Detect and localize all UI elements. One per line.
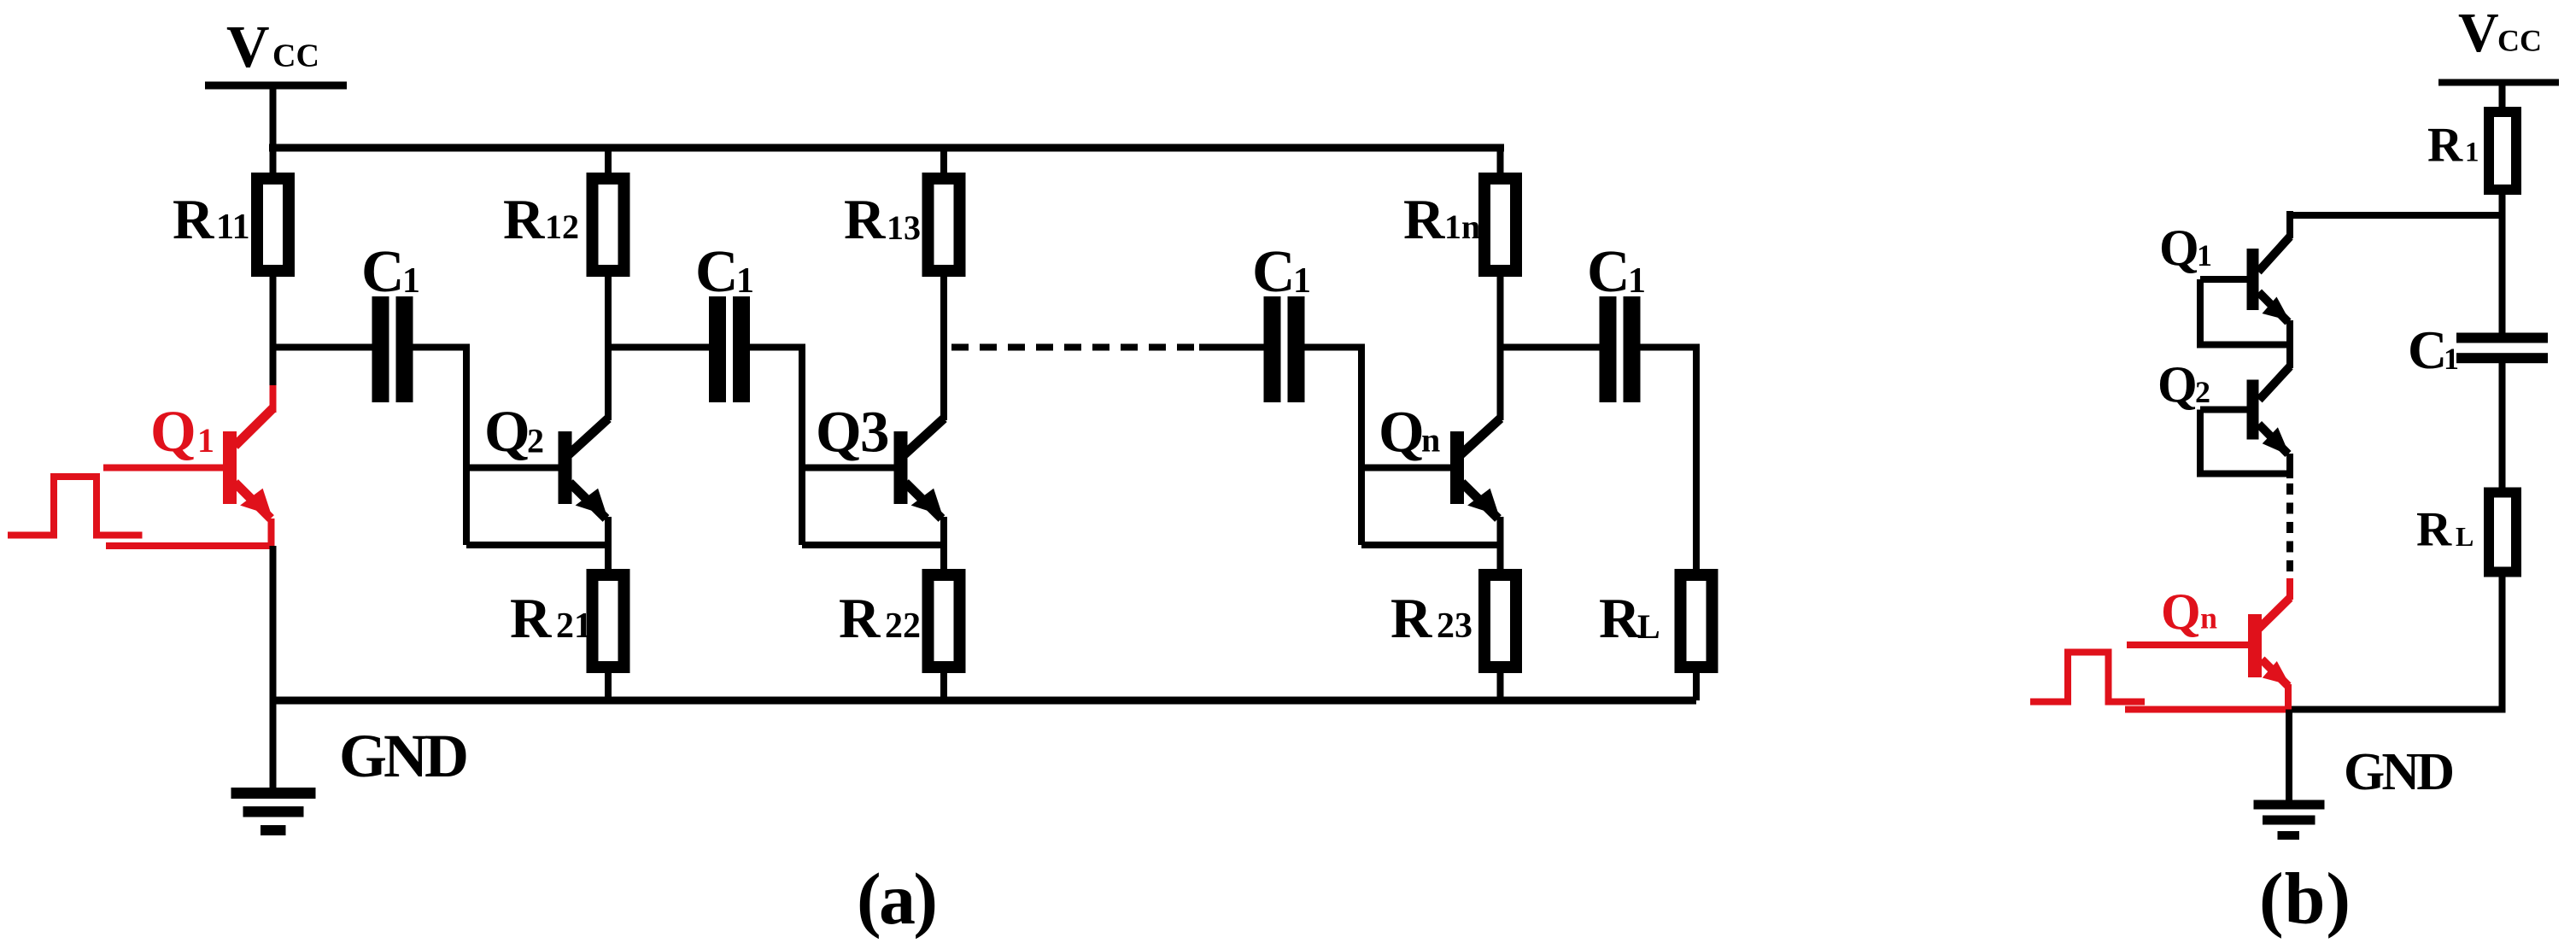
resistor R11 label: [173, 188, 250, 251]
svg-text:12: 12: [545, 208, 579, 246]
resistor R21: [593, 575, 624, 700]
power symbol Vcc (a) label: [226, 15, 319, 80]
svg-text:1: 1: [2197, 238, 2212, 272]
svg-text:R: R: [1403, 188, 1445, 251]
svg-text:C: C: [1252, 239, 1296, 305]
transistor Q1 (red): [223, 408, 273, 518]
svg-text:R: R: [2416, 503, 2452, 557]
transistor Qn: [1450, 419, 1501, 518]
wire Qn collector to output C1 left plate: [1501, 344, 1600, 351]
pulse input symbol (b) red: [2030, 653, 2145, 702]
svg-text:1: 1: [1628, 261, 1646, 301]
capacitor C1 stage n: [1264, 296, 1305, 402]
transistor Q1 label (red): [150, 399, 214, 464]
resistor R23: [1484, 575, 1516, 700]
wire R1 to C1 (b): [2499, 190, 2506, 333]
svg-text:C: C: [2408, 319, 2447, 380]
svg-text:1n: 1n: [1444, 208, 1480, 246]
svg-text:L: L: [2456, 521, 2474, 552]
svg-text:1: 1: [2465, 138, 2479, 168]
resistor RL label (a): [1599, 587, 1660, 650]
resistor R1 (b): [2489, 112, 2516, 190]
capacitor C1 stage1: [372, 296, 413, 402]
svg-text:CC: CC: [2497, 24, 2542, 58]
resistor RL (b): [2489, 493, 2516, 572]
svg-text:2: 2: [2195, 375, 2210, 409]
wire branch to Q1 collector (b): [2290, 212, 2503, 219]
wire Q2 base-emitter loop: [466, 542, 608, 548]
power symbol Vcc (b) label: [2458, 2, 2542, 64]
wire C1 stage1 to Q2 base node: [413, 348, 467, 546]
caption (b): [2259, 858, 2351, 940]
svg-text:C: C: [361, 239, 405, 305]
svg-text:Q: Q: [150, 399, 196, 464]
svg-text:(a): (a): [857, 858, 938, 940]
wire output C1 to RL: [1641, 348, 1697, 570]
capacitor C1 output label: [1587, 239, 1646, 305]
wire Q3 emitter down: [940, 517, 947, 571]
wire C1 stage2 to Q3 base node: [750, 348, 802, 546]
svg-text:1: 1: [1293, 261, 1311, 301]
svg-text:Q: Q: [816, 400, 862, 465]
svg-text:1: 1: [402, 261, 420, 301]
wire Q1 base (b): [2200, 276, 2247, 283]
transistor Q2: [559, 419, 609, 518]
pulse input symbol (a) red: [8, 477, 143, 536]
svg-text:L: L: [1637, 607, 1660, 646]
wire Q2 emitter down (b): [2286, 454, 2293, 478]
svg-text:23: 23: [1437, 606, 1472, 646]
resistor R12: [593, 148, 624, 271]
wire C1 to RL (b): [2499, 363, 2506, 492]
svg-text:R: R: [839, 587, 881, 650]
wire Qn base-emitter loop: [1361, 542, 1501, 548]
resistor R12 label: [503, 188, 579, 251]
power symbol Vcc (b) bar: [2438, 79, 2559, 86]
svg-text:1: 1: [197, 421, 214, 460]
caption (a): [857, 858, 938, 940]
svg-text:13: 13: [887, 208, 921, 247]
wire RL to output node (b): [2290, 571, 2503, 710]
wire Q3 base: [802, 465, 894, 472]
wire Q1 collector to C1 left plate: [273, 344, 372, 351]
transistor Q1 label (b): [2159, 220, 2212, 276]
svg-text:R: R: [510, 587, 552, 650]
resistor R11: [257, 148, 289, 271]
transistor Q2 label (b): [2157, 356, 2210, 413]
resistor R22 label: [839, 587, 921, 650]
capacitor C1 output: [1600, 296, 1641, 402]
transistor Qn label (b) red: [2161, 583, 2217, 640]
svg-text:Q: Q: [2161, 583, 2201, 640]
wire Q2 base: [466, 465, 559, 472]
wire Q1 emitter line (red): [106, 518, 275, 547]
wire Q3 base-emitter loop: [802, 542, 944, 548]
transistor Qn label: [1379, 400, 1440, 465]
capacitor C1 (b): [2456, 333, 2548, 364]
resistor R21 label: [510, 587, 592, 650]
svg-text:R: R: [1599, 587, 1641, 650]
wire red collector stub Qn (b): [2286, 578, 2293, 600]
GND label (a): [339, 722, 469, 790]
transistor Q2 (b): [2247, 366, 2291, 456]
transistor Q2 label: [484, 399, 544, 464]
resistor R1 label (b): [2427, 119, 2479, 173]
wire Q1 emitter to ground rail: [270, 546, 277, 700]
wire dashed stack continuation (b): [2286, 483, 2293, 578]
svg-text:C: C: [695, 239, 739, 305]
wire Qn emitter output line (b) red: [2125, 684, 2290, 711]
wire R11 bottom to Q1 collector node: [270, 271, 277, 387]
svg-text:11: 11: [216, 208, 250, 247]
resistor RL (a): [1681, 575, 1712, 700]
svg-text:n: n: [2200, 601, 2217, 636]
wire R13 bottom to Q3 collector: [940, 271, 947, 420]
wire Q2 emitter down: [605, 517, 612, 571]
ground symbol (a): [231, 700, 316, 835]
ground symbol (b): [2254, 710, 2325, 841]
resistor RL label (b): [2416, 503, 2474, 557]
transistor Q3: [894, 419, 945, 518]
resistor R23 label: [1390, 587, 1472, 650]
wire Q1 emitter down (b): [2286, 320, 2293, 368]
svg-text:Q: Q: [2159, 220, 2199, 276]
capacitor C1 stage2: [709, 296, 750, 402]
GND label (b): [2344, 743, 2455, 801]
resistor R22: [928, 575, 960, 700]
svg-text:1: 1: [736, 261, 754, 301]
wire Qn base (b) red: [2127, 641, 2248, 648]
wire Qn emitter down: [1497, 517, 1504, 571]
svg-text:CC: CC: [272, 38, 319, 74]
svg-text:GND: GND: [2344, 743, 2455, 801]
wire R1n bottom to Qn collector: [1497, 271, 1504, 420]
resistor R13: [928, 148, 960, 271]
svg-text:C: C: [1587, 239, 1630, 305]
wire top supply rail (a): [269, 144, 1504, 152]
svg-text:V: V: [2458, 2, 2499, 64]
wire ground rail (a): [273, 697, 1697, 705]
wire Vcc to top rail (a): [270, 85, 277, 151]
wire red collector stub Q1: [270, 385, 277, 413]
wire C1 stage n to Qn base node: [1305, 348, 1362, 546]
svg-text:3: 3: [860, 400, 890, 465]
svg-text:R: R: [2427, 119, 2463, 173]
svg-text:R: R: [1390, 587, 1432, 650]
wire Q1 base (red): [103, 465, 223, 472]
svg-text:22: 22: [885, 606, 921, 646]
wire Q2 collector to C1 left plate: [608, 344, 709, 351]
capacitor C1 stage2 label: [695, 239, 754, 305]
wire dash end to C1 stage n left plate: [1199, 344, 1264, 351]
svg-text:R: R: [844, 188, 886, 251]
resistor R1n label: [1403, 188, 1480, 251]
capacitor C1 stage n label: [1252, 239, 1311, 305]
svg-text:Q: Q: [484, 399, 530, 464]
capacitor C1 stage1 label: [361, 239, 420, 305]
svg-text:n: n: [1421, 421, 1440, 460]
wire Vcc to R1 (b): [2499, 83, 2506, 114]
svg-text:R: R: [503, 188, 545, 251]
svg-text:(b): (b): [2259, 858, 2351, 940]
wire Q1 base-emitter loop (b): [2200, 279, 2290, 345]
resistor R13 label: [844, 188, 921, 251]
wire Q2 base-emitter loop (b): [2200, 410, 2290, 474]
svg-text:V: V: [226, 15, 270, 80]
capacitor C1 label (b): [2408, 319, 2459, 380]
transistor Q3 label: [816, 400, 890, 465]
wire Q2 base (b): [2200, 407, 2247, 413]
svg-text:Q: Q: [2157, 356, 2198, 413]
wire R12 bottom to Q2 collector: [605, 271, 612, 420]
svg-text:Q: Q: [1379, 400, 1425, 465]
svg-text:GND: GND: [339, 722, 469, 790]
wire dashed continuation (a): [951, 344, 1199, 351]
svg-text:2: 2: [527, 422, 544, 460]
transistor Q1 (b): [2247, 211, 2291, 322]
resistor R1n: [1484, 148, 1516, 271]
power symbol Vcc (a) bar: [205, 82, 347, 90]
wire Qn base: [1361, 465, 1450, 472]
transistor Qn (b) red: [2248, 598, 2290, 686]
svg-text:R: R: [173, 188, 214, 251]
